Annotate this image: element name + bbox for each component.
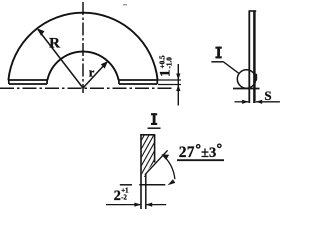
dim S right shaft [256,101,280,103]
side view bar right edge [253,11,256,103]
label I (detail view) [151,113,157,125]
angle dim arc [162,155,175,180]
svg-text:+1: +1 [121,187,129,194]
chamfer line [145,150,168,174]
right flange box [119,80,158,84]
outer arc [8,13,157,80]
left flange box [8,80,47,84]
dim 2 right arrowhead [146,203,153,207]
svg-text:1: 1 [157,70,173,78]
detail base line left segment [120,184,132,186]
front view horizontal centerline [0,87,174,89]
callout leader [223,62,239,74]
svg-text:-2: -2 [121,195,127,202]
side view bar left edge [248,11,250,103]
chamfer blob on bar inside circle [254,74,257,82]
svg-text:2: 2 [114,188,121,204]
label 27 underline [177,159,224,161]
inner arc [47,52,118,80]
radius R line [38,30,83,89]
front view vertical centerline [82,2,84,93]
radius r arrowhead [101,61,108,69]
dim 1 text rotated [157,55,173,77]
svg-text:±3: ±3 [201,145,216,161]
radius r line [83,62,107,88]
dim S left shaft [235,101,249,103]
dim 1 dimension line [177,64,179,106]
dim 1 extension lines [158,79,181,81]
radius R arrowhead [37,28,45,36]
svg-text:r: r [89,65,95,79]
section hatching [140,113,157,186]
detail label I underline [148,127,161,129]
dim S right arrowhead [256,100,263,104]
dim 2 left shaft [106,204,141,206]
dim 1 upper arrowhead [176,74,180,81]
section right edge [154,135,156,163]
dim 1 lower arrowhead [176,85,180,92]
strip right edge [145,174,147,209]
detail base line right segment [139,184,165,186]
angle dim upper arrowhead [161,154,169,160]
dim S left arrowhead [242,100,249,104]
svg-text:-1.0: -1.0 [166,57,174,69]
svg-text:27: 27 [179,144,195,161]
svg-text:R: R [49,35,60,51]
svg-text:S: S [264,88,271,103]
detail callout circle [237,70,255,88]
angle dim lower arrowhead [168,179,176,185]
side view base line [233,88,260,90]
section left edge [140,135,142,210]
side view bar top cap [249,10,257,12]
scan speck [123,4,127,5]
section top cap [140,134,155,136]
dim 2 right shaft [146,204,166,206]
dim 2 left arrowhead [134,203,141,207]
label I (side view) [215,47,221,59]
label I underline [211,61,223,63]
